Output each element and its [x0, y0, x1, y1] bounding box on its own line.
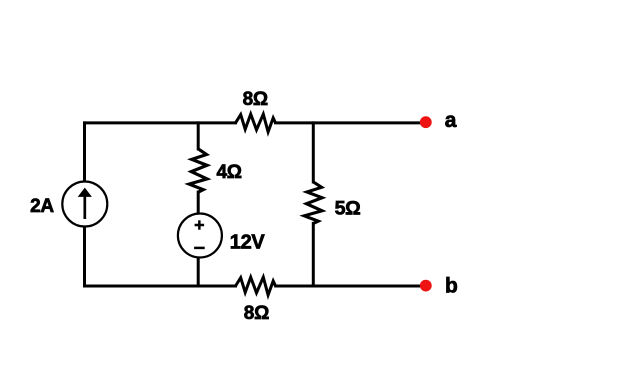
svg-text:8Ω: 8Ω: [243, 89, 268, 110]
svg-text:2A: 2A: [30, 196, 54, 217]
svg-text:12V: 12V: [230, 231, 266, 253]
svg-text:a: a: [445, 109, 457, 132]
svg-text:b: b: [445, 275, 458, 298]
svg-text:4Ω: 4Ω: [216, 162, 241, 183]
svg-text:5Ω: 5Ω: [335, 198, 361, 220]
svg-text:8Ω: 8Ω: [244, 303, 269, 324]
